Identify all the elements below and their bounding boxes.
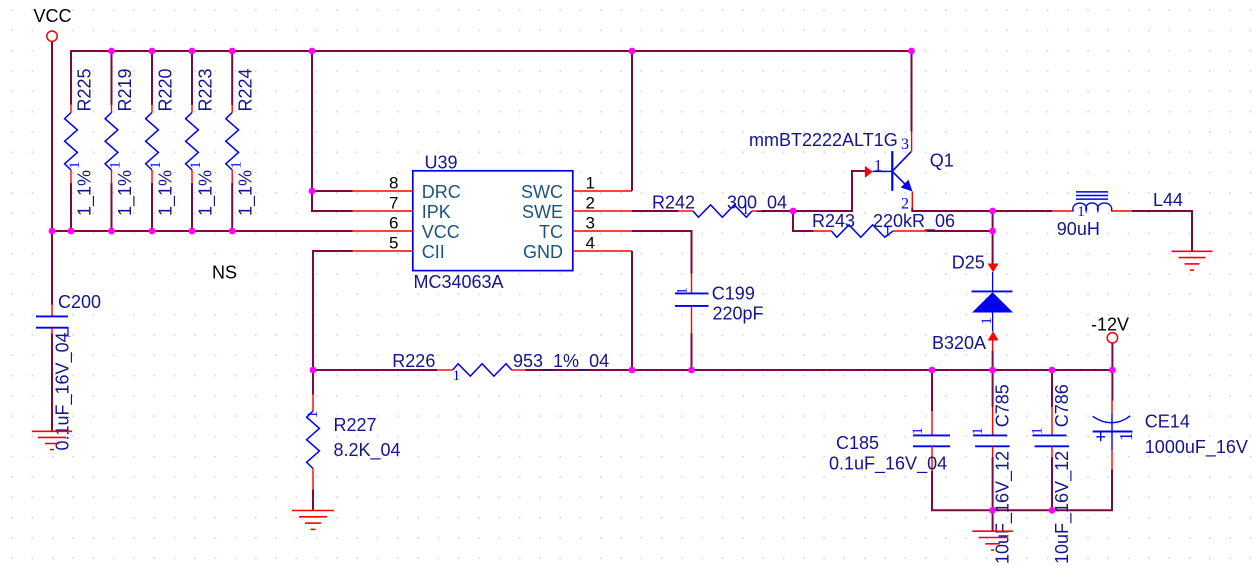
CE14 bottom pin lead bbox=[1111, 450, 1113, 469]
D25 cathode pin arrow bbox=[988, 264, 999, 273]
wire resistor bottom stubs bbox=[71, 183, 232, 232]
wire C785 bottom stub bbox=[992, 457, 994, 510]
L44 left pin lead bbox=[1052, 210, 1072, 212]
svg-text:1_1%: 1_1% bbox=[75, 170, 96, 216]
R225 top pin lead bbox=[70, 105, 72, 113]
C786 plates bbox=[1033, 434, 1067, 436]
resistor R242 300_04 bbox=[652, 192, 787, 218]
svg-text:953_1%_04: 953_1%_04 bbox=[513, 351, 609, 372]
svg-text:1_1%: 1_1% bbox=[236, 170, 257, 216]
power ground below bottom bus bbox=[972, 531, 1013, 550]
svg-text:mmBT2222ALT1G: mmBT2222ALT1G bbox=[749, 130, 898, 150]
svg-text:1: 1 bbox=[874, 158, 882, 175]
diode D25 B320A bbox=[932, 253, 1013, 353]
U39 right pins 1 2 3 4 bbox=[573, 191, 632, 251]
C200 top pin lead bbox=[51, 305, 53, 317]
svg-text:0.1uF_16V_04: 0.1uF_16V_04 bbox=[829, 453, 947, 474]
wire SWC pin 1 up to top bus bbox=[631, 51, 633, 191]
C200 plates bbox=[36, 315, 68, 317]
wire R227 to ground bbox=[312, 490, 314, 511]
wire D25 anode to -12V rail bbox=[992, 351, 994, 370]
R243 left pin lead bbox=[814, 230, 832, 232]
R223 bottom pin lead bbox=[191, 170, 193, 184]
U39 pin numbers left bbox=[389, 174, 398, 253]
Q1 base pin bbox=[873, 170, 893, 172]
C785 plates bbox=[973, 434, 1007, 436]
resistor R224 1_1% bbox=[226, 68, 257, 216]
R220 top pin lead bbox=[151, 105, 153, 113]
Q1 base input arrow bbox=[865, 166, 873, 178]
U39 pin names right bbox=[521, 182, 563, 262]
wire top bus drop to DRC pin 8 / IPK pin 7 bbox=[312, 51, 353, 211]
R242 right pin lead bbox=[752, 210, 762, 212]
svg-text:C185: C185 bbox=[836, 433, 879, 453]
svg-text:GND: GND bbox=[523, 242, 563, 262]
svg-text:U39: U39 bbox=[425, 152, 458, 172]
wire VCC rail to pin 6 bbox=[51, 230, 353, 232]
svg-text:8: 8 bbox=[389, 174, 398, 193]
R227 bottom pin lead bbox=[312, 469, 314, 490]
svg-text:1: 1 bbox=[67, 161, 83, 169]
wire C786 bottom stub bbox=[1051, 457, 1053, 510]
svg-text:1: 1 bbox=[228, 161, 244, 169]
svg-text:1000uF_16V: 1000uF_16V bbox=[1145, 437, 1248, 458]
svg-text:R220: R220 bbox=[156, 68, 176, 111]
resistor R243 220kR_06 bbox=[812, 211, 955, 240]
resistor R219 1_1% bbox=[105, 68, 136, 216]
svg-text:CE14: CE14 bbox=[1145, 411, 1190, 431]
svg-text:6: 6 bbox=[389, 214, 398, 233]
Q1 base bar bbox=[891, 151, 893, 191]
svg-text:1_1%: 1_1% bbox=[115, 170, 136, 216]
svg-text:NS: NS bbox=[212, 263, 237, 283]
svg-text:1: 1 bbox=[970, 427, 986, 435]
capacitor C185 0.1uF_16V_04 bbox=[829, 411, 950, 474]
L44 coil bbox=[1073, 203, 1112, 212]
R226 left pin lead bbox=[437, 369, 453, 371]
R225 bottom pin lead bbox=[70, 170, 72, 184]
C185 top pin lead bbox=[931, 411, 933, 435]
wire C185 top stub bbox=[931, 370, 933, 411]
R242 left pin lead bbox=[679, 210, 694, 212]
junction dots top bus bbox=[108, 48, 915, 55]
ground below R227 bbox=[292, 511, 334, 530]
svg-text:C200: C200 bbox=[58, 292, 101, 312]
svg-text:R225: R225 bbox=[75, 68, 95, 111]
svg-text:1: 1 bbox=[1116, 432, 1136, 441]
wire resistor top stubs bbox=[112, 51, 233, 105]
R226 right pin lead bbox=[512, 369, 526, 371]
Q1 emitter bbox=[892, 171, 905, 184]
Q1 collector bbox=[892, 152, 911, 172]
inductor L44 90uH bbox=[1052, 190, 1183, 239]
svg-text:DRC: DRC bbox=[422, 182, 461, 202]
svg-text:10uF_16V_12: 10uF_16V_12 bbox=[1052, 451, 1073, 564]
capacitor C786 10uF_16V_12 bbox=[1030, 384, 1073, 564]
R243 body bbox=[831, 225, 893, 238]
R242 body bbox=[693, 205, 752, 218]
svg-text:TC: TC bbox=[539, 222, 563, 242]
svg-text:1: 1 bbox=[1030, 427, 1046, 435]
CE14 curved plate bbox=[1093, 416, 1131, 423]
svg-text:VCC: VCC bbox=[34, 6, 72, 26]
svg-text:1: 1 bbox=[1077, 204, 1085, 220]
resistor R226 953_1%_04 bbox=[392, 351, 609, 384]
resistor R223 1_1% bbox=[186, 68, 217, 216]
svg-text:C199: C199 bbox=[712, 283, 755, 303]
L44 right pin lead bbox=[1112, 210, 1132, 212]
U39 pin names left bbox=[422, 182, 461, 262]
junction dots -12V rail bbox=[310, 367, 1116, 374]
L44 core lines bbox=[1076, 191, 1108, 193]
wire CII pin 5 down to R226 node bbox=[313, 251, 353, 395]
C785 top pin lead bbox=[992, 407, 994, 435]
R219 bottom pin lead bbox=[111, 170, 113, 184]
svg-text:R226: R226 bbox=[392, 351, 435, 371]
R219 top pin lead bbox=[111, 105, 113, 113]
svg-text:L44: L44 bbox=[1153, 190, 1183, 210]
op-amp U39 MC34063A body bbox=[413, 171, 573, 271]
wire L44 to ground bbox=[1132, 211, 1192, 252]
svg-text:SWE: SWE bbox=[522, 202, 563, 222]
R223 top pin lead bbox=[191, 105, 193, 113]
junction dots VCC rail bbox=[49, 228, 236, 235]
capacitor C200 0.1uF_16V_04 bbox=[36, 292, 101, 451]
junction dots bottom bus bbox=[989, 507, 1055, 514]
svg-text:7: 7 bbox=[389, 194, 398, 213]
svg-text:1_1%: 1_1% bbox=[156, 170, 177, 216]
svg-text:1: 1 bbox=[108, 161, 124, 169]
wire C786 top stub bbox=[1051, 370, 1053, 407]
svg-text:R227: R227 bbox=[334, 415, 377, 435]
svg-text:SWC: SWC bbox=[521, 182, 563, 202]
resistor R225 1_1% bbox=[65, 68, 96, 216]
C199 plates bbox=[675, 292, 709, 294]
D25 body triangle bbox=[972, 292, 1013, 312]
svg-text:0.1uF_16V_04: 0.1uF_16V_04 bbox=[53, 332, 74, 450]
wire C785 top stub bbox=[992, 370, 994, 407]
U39 pin numbers right bbox=[586, 174, 595, 253]
svg-text:1: 1 bbox=[305, 411, 321, 419]
CE14 straight plate bbox=[1093, 431, 1133, 433]
junction dots switch nodes bbox=[309, 188, 996, 235]
resistor R220 1_1% bbox=[146, 68, 177, 216]
wire SWE pin 2 to R242 bbox=[632, 210, 679, 212]
svg-text:1: 1 bbox=[586, 174, 595, 193]
wire TC pin 3 to C199 bbox=[632, 231, 692, 274]
D25 cathode bar bbox=[972, 290, 1013, 292]
svg-text:1: 1 bbox=[910, 427, 926, 435]
C185 plates bbox=[913, 434, 950, 436]
R224 body bbox=[226, 113, 239, 171]
svg-text:R223: R223 bbox=[196, 68, 216, 111]
svg-text:90uH: 90uH bbox=[1057, 219, 1100, 239]
svg-text:300_04: 300_04 bbox=[727, 192, 787, 213]
svg-text:1: 1 bbox=[453, 368, 461, 384]
svg-text:8.2K_04: 8.2K_04 bbox=[334, 440, 401, 461]
svg-text:R242: R242 bbox=[652, 192, 695, 212]
R220 bottom pin lead bbox=[151, 170, 153, 184]
wire bottom bus to power ground bbox=[992, 510, 994, 531]
D25 anode pin arrow bbox=[988, 331, 999, 340]
wire -12V feedback rail bbox=[526, 369, 1113, 371]
wire R243 right to D25 node bbox=[927, 230, 993, 232]
R219 body bbox=[105, 113, 118, 171]
R223 body bbox=[186, 113, 199, 171]
svg-text:4: 4 bbox=[586, 234, 595, 253]
CE14 plus sign bbox=[1096, 436, 1105, 438]
C199 top pin lead bbox=[691, 274, 693, 294]
wire switch node down to D25 bbox=[992, 211, 994, 264]
C786 top pin lead bbox=[1051, 407, 1053, 435]
R220 body bbox=[146, 113, 159, 171]
svg-text:10uF_16V_12: 10uF_16V_12 bbox=[993, 451, 1014, 564]
R243 right pin lead bbox=[893, 230, 927, 232]
svg-text:5: 5 bbox=[389, 234, 398, 253]
svg-text:R243: R243 bbox=[812, 211, 855, 231]
U39 left pins 8 7 6 5 bbox=[353, 191, 413, 251]
wire R242 to Q1 base bbox=[762, 171, 866, 211]
svg-text:1_1%: 1_1% bbox=[196, 170, 217, 216]
R224 bottom pin lead bbox=[231, 170, 233, 184]
R227 top pin lead bbox=[312, 395, 314, 412]
power terminal VCC bbox=[34, 6, 72, 41]
svg-text:B320A: B320A bbox=[932, 333, 986, 353]
C185 bottom pin lead bbox=[931, 446, 933, 471]
wire C199 bottom to rail bbox=[691, 333, 693, 370]
svg-text:1: 1 bbox=[188, 161, 204, 169]
capacitor CE14 1000uF_16V electrolytic bbox=[1093, 401, 1248, 470]
wire GND pin 4 down to rail bbox=[631, 251, 633, 370]
C200 bottom pin lead bbox=[51, 328, 53, 334]
transistor Q1 mmBT2222ALT1G bbox=[749, 130, 954, 213]
wire node to R243 left bbox=[793, 211, 814, 231]
wire bottom bus C185 to CE14 bbox=[932, 470, 1112, 511]
ground below L44 bbox=[1172, 251, 1213, 270]
R225 body bbox=[65, 113, 78, 171]
wire C200 to ground bbox=[51, 334, 53, 432]
R224 top pin lead bbox=[231, 105, 233, 113]
svg-text:1: 1 bbox=[675, 287, 691, 295]
svg-text:2: 2 bbox=[586, 194, 595, 213]
svg-text:3: 3 bbox=[901, 136, 909, 153]
svg-text:2: 2 bbox=[901, 196, 909, 213]
wire R226 left lead from node bbox=[313, 369, 437, 371]
svg-text:R219: R219 bbox=[115, 68, 135, 111]
R226 body bbox=[453, 364, 512, 377]
svg-text:IPK: IPK bbox=[422, 202, 451, 222]
ground below C200 bbox=[32, 431, 72, 449]
svg-text:1: 1 bbox=[148, 161, 164, 169]
Q1 pin numbers 1 3 2 bbox=[874, 136, 909, 212]
svg-text:VCC: VCC bbox=[422, 222, 460, 242]
wire Q1 emitter to L44 bbox=[912, 208, 1052, 212]
svg-text:220kR_06: 220kR_06 bbox=[873, 211, 955, 232]
wire top VCC bus with drop to Q1 collector bbox=[71, 51, 912, 132]
R227 body bbox=[307, 411, 320, 469]
resistor R227 8.2K_04 bbox=[305, 395, 401, 490]
wire -12V terminal down bbox=[1111, 343, 1113, 401]
svg-text:220pF: 220pF bbox=[713, 303, 764, 323]
C785 bottom pin lead bbox=[992, 446, 994, 457]
svg-text:D25: D25 bbox=[952, 253, 985, 273]
wire VCC terminal to VCC rail and C200 bbox=[51, 42, 53, 305]
C199 bottom pin lead bbox=[691, 306, 693, 334]
capacitor C785 10uF_16V_12 bbox=[970, 384, 1013, 564]
capacitor C199 220pF bbox=[675, 274, 764, 334]
svg-text:CII: CII bbox=[422, 242, 445, 262]
C786 bottom pin lead bbox=[1051, 446, 1053, 457]
svg-text:3: 3 bbox=[586, 214, 595, 233]
CE14 top pin lead bbox=[1111, 401, 1113, 414]
svg-text:Q1: Q1 bbox=[930, 151, 954, 171]
power terminal -12V bbox=[1091, 315, 1129, 343]
svg-text:MC34063A: MC34063A bbox=[414, 272, 504, 292]
wire stub to pin 8 bbox=[312, 190, 353, 192]
svg-text:R224: R224 bbox=[236, 68, 256, 111]
svg-text:1: 1 bbox=[979, 317, 995, 325]
svg-text:C785: C785 bbox=[993, 384, 1013, 427]
svg-text:C786: C786 bbox=[1052, 384, 1072, 427]
svg-text:-12V: -12V bbox=[1091, 315, 1129, 335]
Q1 emitter arrow bbox=[901, 180, 913, 192]
